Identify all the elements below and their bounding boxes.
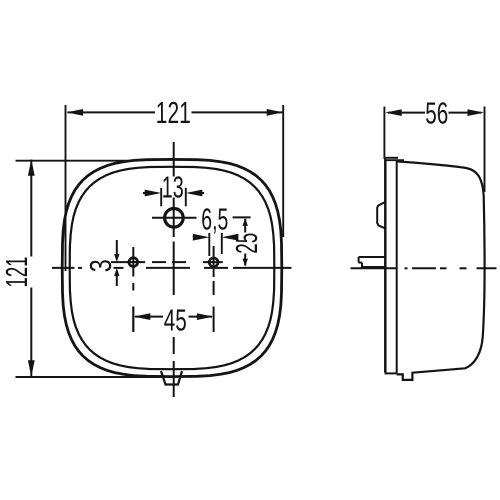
svg-text:13: 13	[162, 170, 184, 205]
svg-text:121: 121	[0, 257, 34, 288]
svg-text:3: 3	[83, 259, 118, 272]
svg-text:56: 56	[425, 95, 448, 130]
svg-text:45: 45	[164, 303, 187, 338]
svg-text:121: 121	[156, 95, 191, 130]
svg-text:25: 25	[229, 233, 264, 254]
svg-text:6,5: 6,5	[201, 202, 228, 237]
